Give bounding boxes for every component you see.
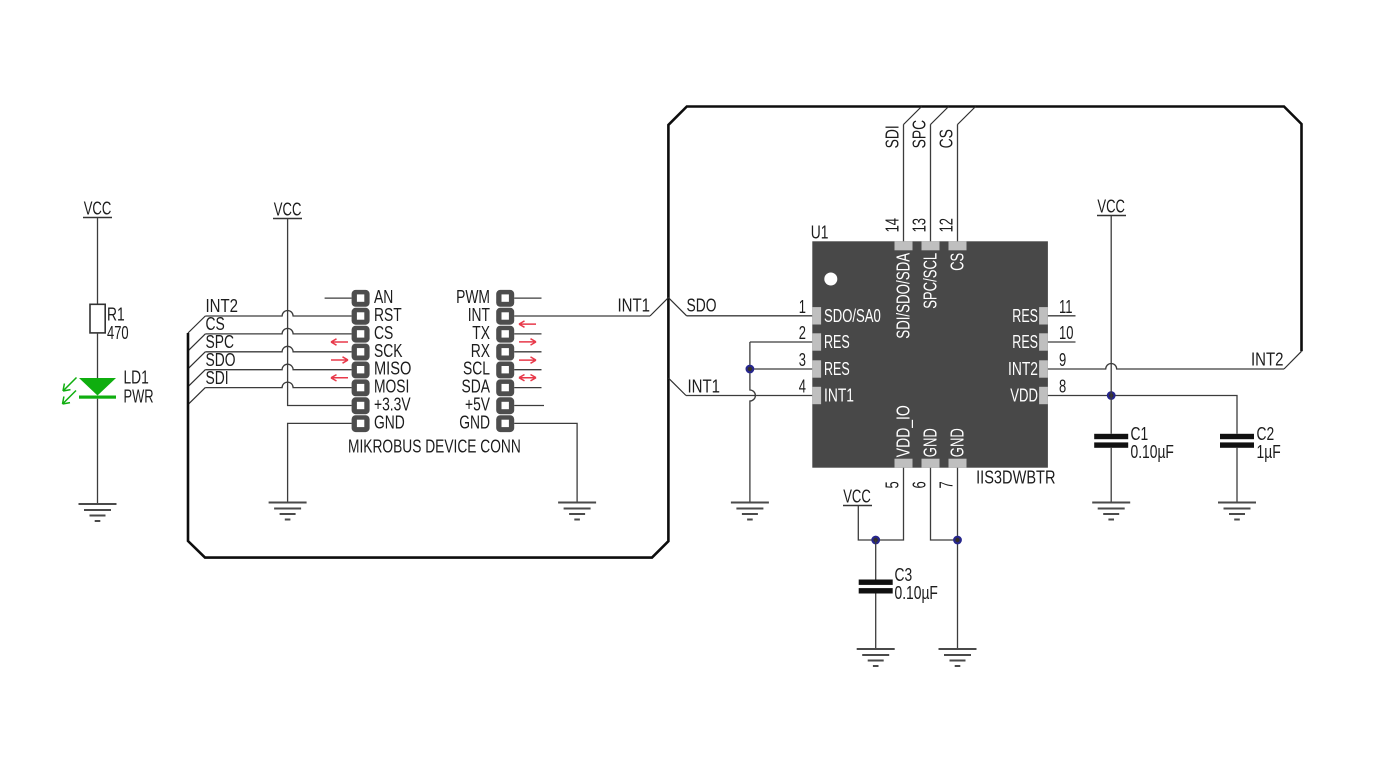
wire VCC to R1 bbox=[97, 218, 99, 305]
red direction arrow RX bbox=[519, 357, 536, 363]
bus outline (board boundary) bbox=[188, 107, 1302, 558]
svg-text:VDD: VDD bbox=[1010, 386, 1038, 406]
junction C3 tap bbox=[872, 537, 879, 544]
svg-text:R1: R1 bbox=[107, 305, 125, 325]
ground (mikroBUS right) bbox=[558, 503, 596, 520]
wire LD1 to ground bbox=[97, 399, 99, 504]
svg-text:C2: C2 bbox=[1257, 424, 1275, 444]
svg-text:SDO: SDO bbox=[687, 296, 717, 316]
wire RX stub bbox=[514, 351, 541, 353]
wire VCC down to C1 bbox=[1110, 216, 1112, 434]
svg-text:3: 3 bbox=[799, 350, 806, 370]
wire R1 to LD1 bbox=[97, 333, 99, 378]
red direction arrow SDA (bidir) bbox=[519, 375, 536, 381]
wire junction to C3 bbox=[875, 540, 877, 580]
wire INT1 to chip pin 4 bbox=[686, 395, 812, 397]
wire MISO / net SDO (hop over VCC) bbox=[205, 364, 351, 370]
svg-text:C3: C3 bbox=[895, 565, 913, 585]
wire INT / net INT1 bbox=[514, 315, 650, 317]
capacitor C1 bbox=[1094, 424, 1174, 462]
pin stubs right bbox=[1039, 307, 1048, 404]
wire PWM stub bbox=[514, 297, 541, 299]
junction RES net bbox=[747, 366, 754, 373]
bus entry diagonal INT1 (lower) bbox=[668, 378, 686, 396]
ground (LED branch) bbox=[79, 504, 117, 521]
wire RES net to ground (vertical hop over INT1 wire) bbox=[750, 342, 756, 503]
svg-text:2: 2 bbox=[799, 323, 806, 343]
pin 1 marker dot bbox=[824, 273, 837, 286]
power VCC net label (VDD_IO branch) bbox=[843, 487, 872, 507]
power VCC net label (left, LED branch) bbox=[83, 199, 112, 219]
red direction arrow MOSI (in) bbox=[331, 375, 348, 381]
svg-text:5: 5 bbox=[883, 481, 903, 488]
connector header left column (mikroBUS) bbox=[352, 287, 412, 432]
svg-text:VCC: VCC bbox=[1097, 197, 1125, 217]
wire chip pin 12 up to bus bbox=[957, 125, 959, 242]
svg-text:GND: GND bbox=[459, 412, 490, 432]
svg-text:MIKROBUS DEVICE CONN: MIKROBUS DEVICE CONN bbox=[348, 437, 521, 457]
wire chip pin 2 RES bbox=[750, 341, 812, 343]
svg-text:GND: GND bbox=[374, 412, 405, 432]
ground (C1) bbox=[1092, 503, 1130, 520]
svg-text:CS: CS bbox=[206, 314, 225, 334]
svg-text:SPC: SPC bbox=[206, 332, 235, 352]
power VCC net label (right) bbox=[1097, 197, 1126, 217]
svg-text:INT1: INT1 bbox=[618, 296, 651, 316]
bus crossing diagonals INT1/SDO bbox=[650, 298, 687, 316]
bus entry diagonal CS bbox=[958, 107, 976, 125]
svg-text:SDI/SDO/SDA: SDI/SDO/SDA bbox=[894, 253, 914, 339]
svg-text:VCC: VCC bbox=[843, 487, 871, 507]
svg-text:VCC: VCC bbox=[274, 200, 302, 220]
svg-text:VCC: VCC bbox=[84, 199, 112, 219]
svg-text:CS: CS bbox=[937, 129, 957, 148]
svg-text:RES: RES bbox=[824, 332, 850, 352]
svg-text:RES: RES bbox=[824, 359, 850, 379]
bus entry diagonal SPC bbox=[931, 107, 949, 125]
svg-text:6: 6 bbox=[910, 481, 930, 488]
wire AN stub bbox=[325, 297, 352, 299]
svg-text:RES: RES bbox=[1012, 332, 1038, 352]
svg-text:SDI: SDI bbox=[883, 125, 903, 148]
svg-text:1µF: 1µF bbox=[1257, 442, 1281, 462]
svg-text:9: 9 bbox=[1059, 350, 1066, 370]
ground (mikroBUS left) bbox=[269, 503, 307, 520]
capacitor C3 bbox=[859, 565, 938, 603]
wire SDO to chip pin 1 bbox=[687, 315, 813, 317]
svg-text:INT1: INT1 bbox=[688, 377, 721, 397]
svg-text:IIS3DWBTR: IIS3DWBTR bbox=[976, 468, 1055, 488]
wire chip pin 6 GND bbox=[931, 468, 958, 540]
svg-text:4: 4 bbox=[799, 377, 806, 397]
wire SCK / net SPC (hop over VCC) bbox=[205, 346, 351, 352]
wire VCC to chip pin 5 bbox=[858, 468, 903, 540]
pin stubs top bbox=[895, 241, 967, 250]
wire chip pin 14 up to bus bbox=[903, 125, 905, 242]
svg-text:1: 1 bbox=[799, 297, 806, 317]
svg-text:SPC/SCL: SPC/SCL bbox=[921, 253, 941, 309]
bus entry diagonals (left) bbox=[188, 316, 205, 405]
connector header right column (mikroBUS) bbox=[456, 287, 514, 432]
wire VCC down to +3.3V pin bbox=[288, 219, 352, 406]
IC U1 IIS3DWBTR body bbox=[811, 223, 1056, 488]
wire SCL stub bbox=[514, 369, 541, 371]
ground (C2) bbox=[1218, 503, 1256, 520]
svg-text:GND: GND bbox=[921, 428, 941, 457]
wire CS (hop over VCC) bbox=[205, 328, 351, 334]
wire C2 to ground bbox=[1236, 448, 1238, 503]
ground (pin 7) bbox=[939, 649, 977, 666]
power VCC net label (mikroBUS +3.3V) bbox=[273, 200, 302, 220]
svg-text:U1: U1 bbox=[811, 223, 829, 243]
svg-text:0.10µF: 0.10µF bbox=[1131, 442, 1174, 462]
svg-text:13: 13 bbox=[910, 218, 930, 232]
red direction arrow SCK (in) bbox=[331, 339, 348, 345]
wire C3 to ground bbox=[875, 594, 877, 650]
svg-text:12: 12 bbox=[937, 218, 957, 232]
svg-text:C1: C1 bbox=[1131, 424, 1149, 444]
wire C1 to ground bbox=[1110, 448, 1112, 503]
svg-text:11: 11 bbox=[1059, 297, 1073, 317]
ground (RES net) bbox=[731, 503, 769, 520]
wire TX stub bbox=[514, 333, 541, 335]
bus entry diagonal SDI bbox=[904, 107, 922, 125]
svg-text:INT1: INT1 bbox=[824, 386, 854, 406]
bus entry diagonal INT2 (right) bbox=[1284, 351, 1302, 369]
svg-text:GND: GND bbox=[948, 428, 968, 457]
red direction arrow TX bbox=[519, 339, 536, 345]
pin stubs left bbox=[812, 307, 821, 404]
svg-text:SDO/SA0: SDO/SA0 bbox=[824, 306, 881, 326]
wire chip pin 7 GND to ground bbox=[957, 468, 959, 649]
svg-text:SPC: SPC bbox=[910, 120, 930, 149]
wire chip pin 8 VDD to C2 bbox=[1048, 396, 1237, 434]
svg-text:7: 7 bbox=[937, 481, 957, 488]
svg-text:0.10µF: 0.10µF bbox=[895, 583, 938, 603]
wire RST / net INT2 (hop over VCC) bbox=[205, 311, 351, 317]
svg-text:CS: CS bbox=[948, 253, 968, 271]
junction GND pins bbox=[954, 537, 961, 544]
svg-text:INT2: INT2 bbox=[206, 296, 239, 316]
wire chip pin 9 INT2 (hop over VCC) bbox=[1048, 364, 1284, 370]
svg-text:SDO: SDO bbox=[206, 350, 236, 370]
wire GND pin to ground bbox=[288, 423, 352, 502]
junction VDD / C1 bbox=[1108, 392, 1115, 399]
svg-text:VDD_IO: VDD_IO bbox=[894, 405, 915, 457]
capacitor C2 bbox=[1220, 424, 1281, 462]
svg-text:RES: RES bbox=[1012, 306, 1038, 326]
svg-text:8: 8 bbox=[1059, 377, 1066, 397]
wire GND to ground bbox=[514, 423, 577, 502]
red direction arrow MISO (out) bbox=[331, 357, 348, 363]
pin stubs bottom bbox=[895, 459, 967, 468]
LED LD1 PWR bbox=[63, 368, 154, 407]
svg-text:INT2: INT2 bbox=[1008, 359, 1038, 379]
svg-text:470: 470 bbox=[107, 323, 129, 343]
svg-text:10: 10 bbox=[1059, 323, 1073, 343]
svg-text:SDI: SDI bbox=[206, 368, 229, 388]
resistor R1 bbox=[90, 304, 129, 343]
wire +5V stub bbox=[514, 405, 544, 407]
wire chip pin 13 up to bus bbox=[930, 125, 932, 242]
red direction arrow INT (out to host) bbox=[519, 321, 536, 327]
svg-text:INT2: INT2 bbox=[1251, 350, 1284, 370]
wire MOSI / net SDI (hop over VCC) bbox=[205, 382, 351, 387]
ground (C3) bbox=[857, 649, 895, 666]
svg-text:LD1: LD1 bbox=[124, 368, 149, 388]
wire SDA stub bbox=[514, 387, 541, 389]
svg-text:PWR: PWR bbox=[124, 387, 154, 407]
svg-text:14: 14 bbox=[883, 218, 903, 232]
wire chip pin 3 RES bbox=[750, 368, 812, 370]
